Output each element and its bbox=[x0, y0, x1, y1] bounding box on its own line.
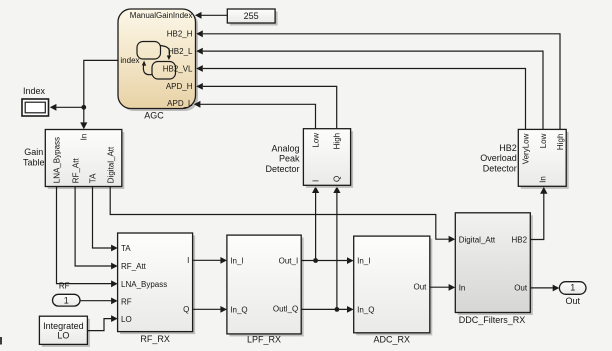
wire DDC Out to outport bbox=[530, 285, 559, 292]
AGC state icon state 1 bbox=[137, 42, 161, 60]
svg-text:APD_H: APD_H bbox=[166, 82, 193, 91]
AGC state icon state 2 bbox=[152, 62, 176, 80]
svg-text:I: I bbox=[312, 180, 321, 182]
wire LPF_RX Outl_Q to ADC_RX In_Q and APD Q bbox=[301, 186, 353, 313]
svg-text:Integrated: Integrated bbox=[43, 321, 84, 331]
svg-text:In: In bbox=[80, 134, 89, 141]
wire HB2 VeryLow to AGC HB2_VL bbox=[196, 65, 525, 129]
svg-text:I: I bbox=[187, 256, 189, 265]
svg-text:In_Q: In_Q bbox=[230, 305, 247, 314]
svg-text:TA: TA bbox=[121, 244, 131, 253]
svg-text:Outl_Q: Outl_Q bbox=[273, 304, 298, 313]
AGC state transition 2 bbox=[142, 61, 152, 75]
block RF_RX bbox=[118, 233, 196, 334]
wire AGC index to display and Gain Table In bbox=[50, 60, 119, 129]
svg-text:RF_RX: RF_RX bbox=[140, 334, 170, 344]
svg-text:In: In bbox=[538, 176, 547, 183]
svg-text:Peak: Peak bbox=[279, 154, 300, 164]
chart AGC bbox=[118, 9, 198, 111]
wire ADC_RX Out to DDC_Filters_RX In bbox=[430, 284, 455, 291]
wire APD Low to AGC APD_L bbox=[194, 101, 316, 129]
svg-text:In_Q: In_Q bbox=[357, 305, 374, 314]
svg-text:HB2_H: HB2_H bbox=[167, 30, 193, 39]
svg-text:Digital_Att: Digital_Att bbox=[459, 235, 496, 244]
svg-text:LNA_Bypass: LNA_Bypass bbox=[53, 137, 62, 183]
svg-text:TA: TA bbox=[89, 173, 98, 183]
AGC state transition 1 bbox=[161, 46, 172, 61]
svg-text:LPF_RX: LPF_RX bbox=[247, 334, 281, 344]
block Integrated LO bbox=[39, 316, 90, 347]
svg-text:Overload: Overload bbox=[480, 153, 517, 163]
wire Gain Table TA to RF_RX bbox=[93, 187, 118, 252]
svg-text:Out: Out bbox=[514, 284, 528, 293]
wire RF_RX I to LPF_RX In_I bbox=[193, 257, 227, 264]
wire Gain Table RF_Att to RF_RX bbox=[75, 187, 118, 270]
svg-text:1: 1 bbox=[570, 283, 575, 293]
wire HB2 High to AGC HB2_H bbox=[196, 30, 560, 129]
inport 1 RF bbox=[53, 294, 81, 306]
constant 255 bbox=[227, 9, 277, 26]
svg-text:index: index bbox=[120, 56, 139, 65]
svg-text:High: High bbox=[556, 134, 565, 150]
svg-text:HB2: HB2 bbox=[499, 143, 517, 153]
svg-text:255: 255 bbox=[244, 11, 259, 21]
wire HB2 Low to AGC HB2_L bbox=[196, 48, 543, 130]
svg-text:Digital_Att: Digital_Att bbox=[106, 146, 115, 183]
wire Gain Table LNA_Bypass to RF_RX bbox=[57, 187, 118, 288]
wire LPF_RX Out_I to ADC_RX In_I and APD I bbox=[301, 186, 353, 264]
svg-text:High: High bbox=[333, 133, 342, 149]
wire DDC HB2 to HB2 OD In bbox=[530, 187, 547, 240]
svg-text:HB2_VL: HB2_VL bbox=[163, 64, 193, 73]
svg-text:Gain: Gain bbox=[24, 147, 43, 157]
svg-text:ADC_RX: ADC_RX bbox=[373, 334, 410, 344]
svg-text:RF: RF bbox=[59, 282, 70, 291]
block ADC_RX bbox=[354, 236, 433, 335]
svg-text:HB2_L: HB2_L bbox=[168, 47, 193, 56]
svg-text:Table: Table bbox=[23, 158, 45, 168]
block LPF_RX bbox=[227, 235, 304, 336]
svg-text:LO: LO bbox=[121, 315, 132, 324]
wire inport RF to RF_RX RF bbox=[80, 298, 118, 305]
svg-text:In_I: In_I bbox=[357, 256, 370, 265]
svg-text:RF_Att: RF_Att bbox=[121, 262, 147, 271]
wire Gain Table Digital_Att to DDC_Filters_RX bbox=[110, 187, 455, 243]
svg-text:Out: Out bbox=[413, 283, 427, 292]
junction Outl_Q bbox=[335, 307, 340, 312]
junction index wire bbox=[81, 105, 86, 110]
svg-text:In_I: In_I bbox=[230, 256, 243, 265]
svg-text:APD_L: APD_L bbox=[167, 99, 193, 108]
wire Integrated LO to RF_RX LO bbox=[87, 315, 117, 330]
wire 255 to ManualGainIndex bbox=[195, 12, 227, 19]
svg-text:ManualGainIndex: ManualGainIndex bbox=[130, 11, 193, 20]
svg-text:Out: Out bbox=[565, 296, 580, 306]
wire APD High to AGC APD_H bbox=[196, 83, 337, 129]
svg-text:In: In bbox=[459, 284, 466, 293]
svg-text:DDC_Filters_RX: DDC_Filters_RX bbox=[459, 315, 526, 325]
outport 1 Out bbox=[559, 282, 586, 295]
svg-text:Detector: Detector bbox=[265, 164, 299, 174]
wire RF_RX Q to LPF_RX In_Q bbox=[193, 306, 227, 313]
junction Out_I bbox=[313, 258, 318, 263]
display Index bbox=[22, 86, 49, 116]
svg-text:Out_I: Out_I bbox=[279, 256, 299, 265]
svg-text:Q: Q bbox=[332, 176, 341, 182]
svg-text:Detector: Detector bbox=[483, 164, 517, 174]
svg-text:LO: LO bbox=[57, 330, 69, 340]
svg-text:Low: Low bbox=[311, 133, 320, 148]
svg-text:Analog: Analog bbox=[271, 143, 299, 153]
block DDC_Filters_RX bbox=[455, 213, 533, 315]
svg-text:1: 1 bbox=[64, 295, 69, 305]
svg-text:LNA_Bypass: LNA_Bypass bbox=[121, 280, 167, 289]
svg-text:Q: Q bbox=[183, 305, 189, 314]
svg-text:AGC: AGC bbox=[144, 111, 164, 121]
canvas edge artifact bbox=[0, 337, 2, 345]
block Gain Table bbox=[45, 130, 124, 190]
svg-text:VeryLow: VeryLow bbox=[521, 133, 530, 164]
svg-text:Index: Index bbox=[23, 86, 46, 96]
svg-text:RF: RF bbox=[121, 297, 132, 306]
block Analog Peak Detector bbox=[303, 129, 353, 188]
svg-text:HB2: HB2 bbox=[512, 235, 528, 244]
svg-text:Low: Low bbox=[539, 133, 548, 148]
block HB2 Overload Detector bbox=[518, 129, 568, 188]
svg-text:RF_Att: RF_Att bbox=[71, 158, 80, 184]
